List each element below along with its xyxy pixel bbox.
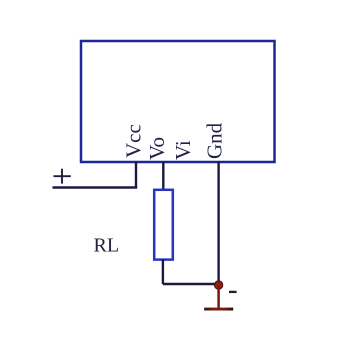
svg-text:Vi: Vi xyxy=(171,140,195,160)
svg-text:Vo: Vo xyxy=(145,137,169,160)
ground stub wire xyxy=(217,285,220,308)
wire Gnd pin down xyxy=(217,162,219,285)
wire Vo pin down to resistor xyxy=(162,162,164,191)
minus sign - xyxy=(229,291,237,293)
svg-text:Gnd: Gnd xyxy=(203,122,227,159)
IC block U1 xyxy=(81,41,275,162)
junction node (red dot) xyxy=(215,281,223,289)
svg-text:Vcc: Vcc xyxy=(122,124,146,158)
wire bottom horizontal to ground node xyxy=(163,283,219,285)
wire Vcc pin down xyxy=(135,162,137,188)
plus terminal + xyxy=(54,169,71,184)
wire Vcc horizontal to + terminal xyxy=(53,186,138,188)
resistor RL body xyxy=(154,190,173,260)
wire resistor bottom down xyxy=(162,259,164,284)
svg-text:RL: RL xyxy=(94,235,120,257)
